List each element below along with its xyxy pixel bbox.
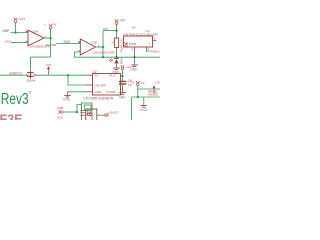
wire U1 pin2 to ground	[134, 52, 136, 65]
wire LED to ground	[116, 64, 118, 68]
svg-text:5V: 5V	[53, 23, 57, 27]
svg-text:ON/OFF: ON/OFF	[95, 83, 107, 87]
U1 bottom pins	[134, 47, 136, 52]
junction U2 OUT/+3V3	[121, 75, 123, 77]
wire to ground right	[143, 97, 145, 105]
pin U2 GND stub	[86, 91, 93, 93]
wire to U2 IN	[68, 74, 86, 76]
svg-text:GND: GND	[95, 90, 103, 94]
junction U3B output/net	[102, 56, 104, 58]
wire to U2 ON/OFF	[68, 75, 86, 85]
op-amp U3A input pin marks	[26, 30, 28, 41]
svg-text:U3A: U3A	[32, 30, 39, 34]
power flag +5V top	[115, 19, 119, 24]
power arrow +5V bottom right	[152, 81, 160, 95]
junction +3V3 flag/bus	[137, 96, 139, 98]
power flag GND near USB	[58, 110, 62, 113]
wire after fuse	[36, 74, 68, 76]
svg-text:ELOAD: ELOAD	[46, 43, 57, 47]
svg-text:Rev3: Rev3	[1, 91, 29, 108]
wire U3A output	[44, 37, 51, 39]
wire USB right pin	[97, 114, 105, 116]
svg-text:NC/FB: NC/FB	[106, 90, 115, 94]
svg-text:USB: USB	[57, 106, 63, 110]
svg-text:LP2985-33DBVR: LP2985-33DBVR	[84, 96, 115, 100]
wire flag down to bus	[137, 86, 139, 97]
wire bus y97	[132, 96, 161, 98]
svg-text:GND: GND	[130, 68, 138, 72]
wire cap to ground	[122, 84, 124, 92]
svg-text:GND: GND	[140, 108, 148, 112]
svg-text:CMP: CMP	[2, 29, 9, 33]
svg-text:+3: +3	[131, 80, 135, 84]
pin U2 IN stub	[86, 74, 93, 76]
svg-text:500mA: 500mA	[27, 79, 36, 83]
wire USBVCC left	[0, 74, 29, 76]
svg-text:PWM: PWM	[129, 42, 137, 46]
svg-text:GND: GND	[118, 96, 126, 100]
wire USB D+	[87, 110, 89, 113]
svg-text:+3V3: +3V3	[4, 39, 12, 43]
feedback wire U3B	[75, 52, 81, 57]
wire down to fuse	[30, 57, 32, 71]
wire from +3V3 flag down	[15, 23, 17, 33]
junction U1 pin2/net	[133, 56, 135, 58]
svg-text:RED: RED	[120, 57, 124, 64]
U3B output junction	[102, 46, 104, 48]
wire U2 OUT to +3V3 node	[121, 75, 123, 77]
junction USB VCC riser	[76, 111, 78, 113]
power flag +5V above output	[49, 24, 53, 29]
ground bottom right	[141, 106, 147, 108]
power arrow +5V on USBVCC wire	[46, 63, 51, 75]
flag at USB right	[105, 113, 109, 117]
svg-text:SHLD1: SHLD1	[109, 110, 119, 114]
net label PWM_OA	[0, 29, 162, 126]
svg-text:1K: 1K	[110, 40, 114, 45]
wire U2 GND pin to ground	[68, 92, 86, 95]
USB connector J1 shield outline	[82, 103, 93, 121]
power flag +3V3 above C6	[121, 65, 124, 70]
fuse F1	[26, 71, 36, 78]
svg-text:+: +	[44, 23, 46, 27]
svg-text:5V0: 5V0	[103, 27, 108, 31]
USB connector J1 inner outline	[84, 105, 91, 110]
long net wire y57	[75, 56, 160, 58]
svg-text:24: 24	[28, 90, 32, 94]
svg-text:1R: 1R	[132, 26, 136, 30]
junction dot output	[50, 37, 52, 39]
op-amp U3B input pin marks	[78, 41, 80, 51]
wire U1 pin3 hook to label	[146, 49, 149, 51]
wire long vertical bottom right	[131, 97, 133, 120]
power flag +3V3 bottom right	[136, 81, 139, 86]
svg-text:+5V: +5V	[46, 63, 51, 67]
svg-text:2: 2	[131, 47, 133, 51]
resistor 1K	[115, 38, 119, 48]
svg-text:A: A	[126, 41, 128, 45]
svg-text:V3: V3	[141, 81, 145, 85]
svg-text:LMV358IDGKR: LMV358IDGKR	[93, 50, 115, 54]
wire CMP to U3A +in	[11, 32, 29, 34]
wire resistor bottom	[116, 48, 118, 59]
svg-text:USBVCC: USBVCC	[9, 72, 23, 76]
wire jog left	[31, 56, 51, 58]
junction resistor/net	[115, 56, 117, 58]
wire U3B output	[96, 46, 104, 48]
junction +5V/wire y30	[115, 30, 117, 32]
USB connector J1 left pins	[80, 110, 86, 115]
ground under U2	[64, 95, 70, 97]
svg-text:PWM_IN: PWM_IN	[150, 49, 160, 53]
wire flag down to resistor	[116, 24, 118, 38]
svg-text:+3V3: +3V3	[18, 17, 26, 21]
regulator U2 box	[93, 74, 121, 96]
ground under U1	[131, 65, 137, 67]
svg-text:+5V: +5V	[155, 81, 160, 85]
svg-text:VCC: VCC	[57, 116, 64, 120]
wire horizontal y30	[103, 30, 117, 32]
capacitor C6	[119, 82, 126, 85]
wire USB vcc	[63, 111, 77, 113]
svg-text:ABCDE: ABCDE	[148, 93, 158, 97]
svg-text:U3B: U3B	[91, 40, 97, 44]
LED D1	[114, 58, 119, 60]
wire +3V3 to U3A -in	[11, 41, 28, 43]
ground under C6	[119, 93, 125, 95]
wire vertical from flag down to jog	[50, 29, 52, 57]
USB connector J1 body	[86, 109, 97, 121]
wire vertical x103	[102, 31, 104, 58]
svg-text:Y: Y	[148, 41, 150, 45]
op-amp U3B	[80, 39, 95, 55]
ground under LED	[113, 68, 119, 70]
gate U1 box	[124, 36, 153, 47]
svg-text:GND: GND	[63, 97, 71, 101]
svg-text:PWM_OA: PWM_OA	[119, 39, 123, 52]
svg-text:IN: IN	[95, 73, 98, 77]
power flag +3V3 top-left	[14, 18, 18, 23]
svg-text:F3E: F3E	[0, 111, 23, 120]
pin U2 ON/OFF stub	[86, 84, 93, 86]
junction dot USBVCC	[67, 74, 69, 76]
svg-text:+5V: +5V	[119, 19, 126, 23]
wire branch y89	[138, 88, 160, 90]
U1 right pin	[153, 39, 157, 41]
svg-text:3: 3	[147, 47, 149, 51]
junction node CMP/+3V3 flag	[14, 31, 16, 33]
svg-text:GND: GND	[112, 71, 120, 75]
wire USB D-	[89, 110, 91, 113]
power flag right of resistor	[124, 42, 127, 46]
wire flag to OUT junction and cap	[122, 70, 124, 82]
wire SCK to U3B +in	[56, 43, 80, 45]
op-amp U3A	[28, 30, 44, 46]
wire up to USB box	[77, 105, 82, 113]
